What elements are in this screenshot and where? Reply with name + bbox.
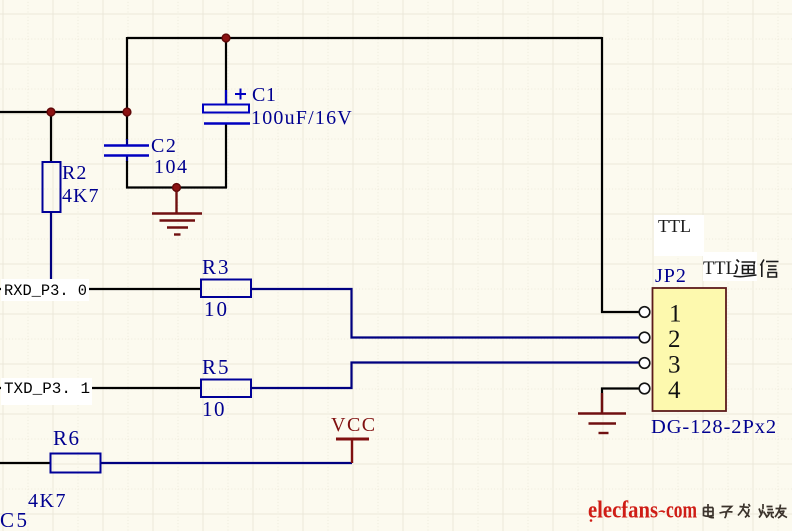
svg-text:C1: C1	[252, 84, 276, 106]
svg-text:TTL: TTL	[658, 216, 691, 236]
pin 4	[639, 377, 681, 404]
node label TTL	[654, 215, 704, 256]
pin 3	[639, 352, 680, 379]
svg-text:R6: R6	[53, 426, 81, 450]
svg-text:4K7: 4K7	[28, 490, 67, 512]
svg-text:C2: C2	[151, 135, 177, 157]
resistor R6	[28, 426, 101, 512]
capacitor C1	[203, 84, 353, 129]
power VCC	[331, 414, 377, 463]
wire C1 lower lead	[225, 124, 227, 188]
svg-text:4K7: 4K7	[62, 185, 99, 207]
wire R6 to VCC	[101, 462, 352, 464]
svg-text:100uF/16V: 100uF/16V	[251, 107, 353, 129]
svg-text:R2: R2	[62, 162, 87, 184]
wire top bus	[127, 37, 602, 39]
wire pin4 to ground	[602, 389, 639, 413]
hanzi tong	[734, 260, 757, 277]
svg-text:TXD_P3. 1: TXD_P3. 1	[4, 380, 90, 398]
svg-text:2: 2	[668, 326, 681, 353]
resistor R5	[201, 355, 251, 421]
text TTL communication caption	[703, 252, 779, 281]
wire R5 to pin3	[251, 363, 639, 389]
resistor R2	[43, 162, 100, 212]
ground symbol under C1/C2	[152, 191, 202, 235]
wire R2 upper lead	[50, 112, 52, 162]
wire left horizontal net y=112	[0, 111, 128, 113]
svg-text:R5: R5	[202, 355, 231, 379]
junction dot at C2 top	[123, 108, 131, 116]
svg-text:10: 10	[204, 297, 229, 321]
elecfans watermark	[588, 498, 787, 524]
wire TXD_P3.1 net	[0, 387, 201, 389]
svg-text:TTL: TTL	[703, 259, 737, 279]
resistor R3	[201, 255, 251, 321]
net label TXD_P3.1	[1, 378, 92, 405]
junction dot at R2 top	[47, 108, 55, 116]
svg-text:elecfans: elecfans	[588, 498, 658, 524]
wire R3 to pin2	[251, 289, 639, 338]
capacitor C5 label (cut off)	[0, 508, 30, 531]
svg-text:RXD_P3. 0: RXD_P3. 0	[4, 282, 87, 300]
wire left vertical from top bus	[126, 37, 128, 112]
wire C1 upper lead	[225, 37, 227, 104]
svg-text:4: 4	[668, 377, 681, 404]
wire C2 upper lead	[126, 112, 128, 145]
junction dot at ground node	[173, 184, 181, 192]
ground symbol at pin4	[578, 393, 626, 433]
svg-text:JP2: JP2	[655, 265, 687, 287]
wire top bus down to pin1	[602, 37, 639, 312]
svg-text:10: 10	[202, 397, 226, 421]
hanzi dian zi fa shao you	[704, 504, 788, 519]
wire R2 lower lead	[50, 212, 52, 280]
wire RXD_P3.0 net	[0, 288, 201, 290]
svg-text:3: 3	[668, 352, 681, 379]
capacitor C2	[104, 135, 189, 178]
svg-text:1: 1	[669, 301, 682, 328]
connector JP2	[651, 265, 777, 438]
wire R6 left lead	[0, 462, 50, 464]
svg-text:R3: R3	[202, 255, 231, 279]
wire C2 lower lead	[126, 156, 128, 188]
hanzi xin	[761, 260, 779, 278]
svg-text:com: com	[666, 498, 697, 524]
svg-text:C5: C5	[0, 508, 30, 531]
svg-text:VCC: VCC	[331, 414, 377, 436]
pin 1	[639, 301, 681, 328]
svg-text:DG-128-2Px2: DG-128-2Px2	[651, 416, 777, 438]
pin 2	[639, 326, 680, 353]
net label RXD_P3.0	[1, 279, 89, 301]
svg-text:104: 104	[154, 156, 189, 178]
wire bottom of C1/C2 loop	[126, 186, 227, 188]
junction dot at C1 top	[222, 34, 230, 42]
